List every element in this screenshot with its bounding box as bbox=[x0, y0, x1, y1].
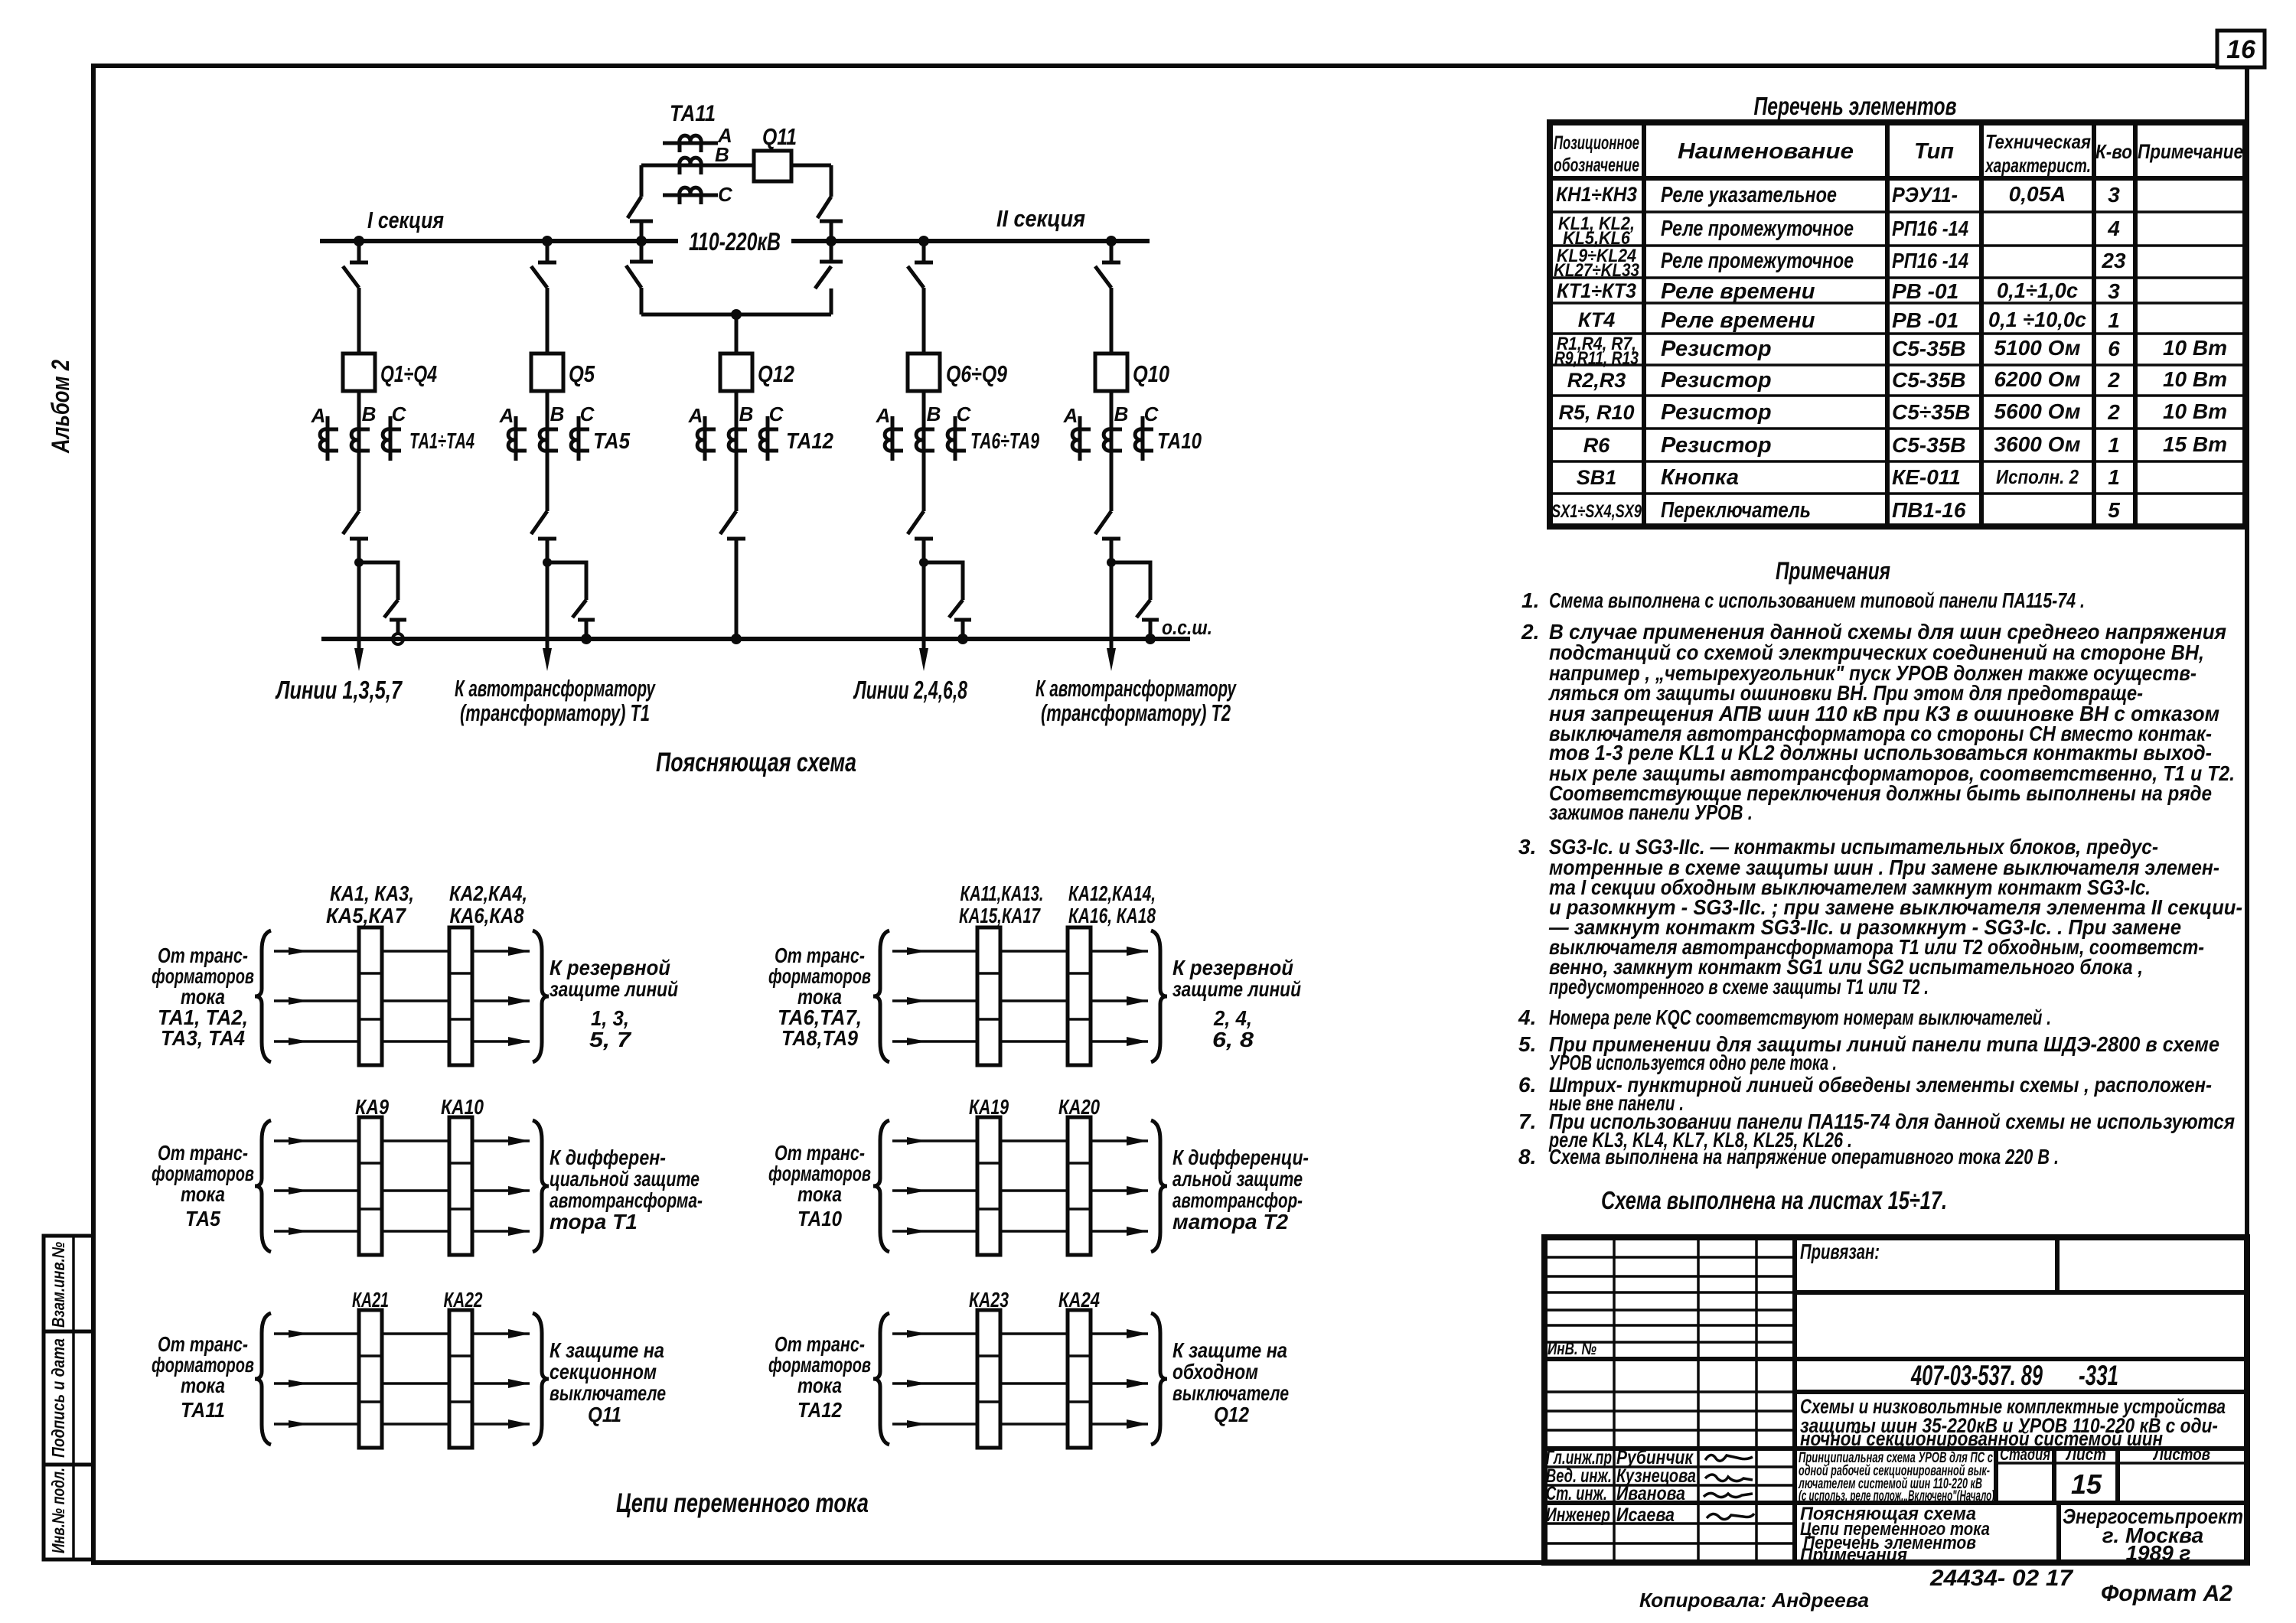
svg-text:ТА10: ТА10 bbox=[797, 1207, 842, 1230]
svg-text:ТА6÷ТА9: ТА6÷ТА9 bbox=[970, 429, 1039, 454]
svg-text:Наименование: Наименование bbox=[1678, 139, 1854, 164]
svg-text:ТА3, ТА4: ТА3, ТА4 bbox=[161, 1026, 245, 1050]
wire: loop top run bbox=[641, 164, 831, 168]
svg-text:4.: 4. bbox=[1518, 1005, 1536, 1029]
svg-text:6, 8: 6, 8 bbox=[1212, 1028, 1254, 1051]
signatures bbox=[1704, 1455, 1754, 1519]
svg-text:К защите на: К защите на bbox=[1172, 1338, 1287, 1362]
svg-text:R2,R3: R2,R3 bbox=[1567, 369, 1626, 392]
svg-text:К дифференци-: К дифференци- bbox=[1172, 1146, 1309, 1169]
bottom description bbox=[1800, 1504, 1990, 1566]
svg-text:15: 15 bbox=[2071, 1468, 2102, 1500]
svg-text:тора Т1: тора Т1 bbox=[550, 1210, 638, 1234]
busbar section I bbox=[320, 207, 678, 241]
svg-text:10 Вт: 10 Вт bbox=[2163, 399, 2227, 423]
CT TA11 label bbox=[670, 101, 716, 126]
svg-text:1989 г: 1989 г bbox=[2125, 1541, 2190, 1565]
svg-text:КН1÷КН3: КН1÷КН3 bbox=[1556, 183, 1637, 206]
svg-text:ТА1÷ТА4: ТА1÷ТА4 bbox=[409, 429, 475, 454]
svg-text:КА2,КА4,: КА2,КА4, bbox=[449, 882, 527, 905]
svg-text:Резистор: Резистор bbox=[1661, 400, 1772, 425]
svg-text:КА16, КА18: КА16, КА18 bbox=[1068, 904, 1156, 927]
section breaker bay Q12 bbox=[688, 314, 833, 644]
svg-text:Переключатель: Переключатель bbox=[1661, 498, 1811, 523]
svg-text:Схема выполнена на листах 1: Схема выполнена на листах 15÷17. bbox=[1601, 1186, 1947, 1214]
CT TA11 phase C winding bbox=[663, 183, 733, 206]
svg-text:выключателе: выключателе bbox=[550, 1381, 666, 1405]
svg-text:ТА5: ТА5 bbox=[185, 1207, 220, 1230]
title block texts bbox=[1548, 1240, 2226, 1450]
note 3 bbox=[1518, 835, 2242, 999]
svg-text:Q12: Q12 bbox=[758, 360, 794, 387]
svg-text:матора Т2: матора Т2 bbox=[1172, 1210, 1288, 1234]
svg-text:Лист: Лист bbox=[2065, 1445, 2106, 1464]
svg-text:4: 4 bbox=[2107, 217, 2120, 240]
node: bus junction dots bbox=[354, 236, 1117, 246]
svg-text:8.: 8. bbox=[1518, 1145, 1536, 1168]
svg-text:R6: R6 bbox=[1583, 434, 1610, 457]
feeder bay Q10 bbox=[1063, 241, 1202, 671]
svg-text:Копировала: Андреева: Копировала: Андреева bbox=[1639, 1589, 1869, 1612]
svg-text:(с использ. реле полож.„Включе: (с использ. реле полож.„Включено"(Начало… bbox=[1799, 1488, 1994, 1504]
KA group 3 left label bbox=[152, 1332, 254, 1422]
svg-text:Q5: Q5 bbox=[569, 360, 595, 387]
svg-text:A: A bbox=[499, 404, 514, 427]
svg-text:КА20: КА20 bbox=[1058, 1095, 1100, 1119]
feeder bay Q5 bbox=[499, 241, 631, 671]
KA group 5 left label bbox=[768, 1141, 871, 1230]
note 2 bbox=[1521, 620, 2235, 824]
KA group 4 left label bbox=[768, 943, 871, 1050]
svg-text:КА12,КА14,: КА12,КА14, bbox=[1068, 882, 1156, 905]
svg-text:КА24: КА24 bbox=[1058, 1288, 1100, 1312]
svg-text:Q10: Q10 bbox=[1133, 360, 1169, 387]
svg-text:ТА8,ТА9: ТА8,ТА9 bbox=[781, 1026, 858, 1050]
svg-text:2: 2 bbox=[2107, 368, 2120, 392]
svg-text:Исполн. 2: Исполн. 2 bbox=[1996, 465, 2079, 488]
svg-text:КА9: КА9 bbox=[355, 1095, 389, 1119]
svg-text:(трансформатору) Т1: (трансформатору) Т1 bbox=[460, 699, 650, 726]
svg-text:ТА12: ТА12 bbox=[797, 1398, 842, 1422]
outgoing labels bbox=[275, 676, 403, 704]
bypass loop right disconnector (above bus) bbox=[817, 165, 843, 241]
parts table grid bbox=[1550, 122, 2245, 526]
svg-text:Исаева: Исаева bbox=[1616, 1504, 1675, 1526]
svg-text:Q11: Q11 bbox=[588, 1403, 621, 1426]
note 8 bbox=[1518, 1145, 2059, 1168]
svg-text:Примечания: Примечания bbox=[1800, 1545, 1907, 1566]
feeder bay Q1..Q4 bbox=[311, 241, 475, 671]
svg-text:7.: 7. bbox=[1518, 1110, 1536, 1133]
svg-text:6.: 6. bbox=[1518, 1073, 1536, 1097]
album label bbox=[47, 360, 74, 454]
svg-text:Реле указательное: Реле указательное bbox=[1661, 183, 1837, 207]
svg-text:Стадия: Стадия bbox=[2000, 1445, 2050, 1464]
bypass busbar о.с.ш. bbox=[321, 616, 1212, 639]
svg-text:КА19: КА19 bbox=[969, 1095, 1009, 1119]
svg-text:Q12: Q12 bbox=[1214, 1403, 1249, 1426]
svg-text:УРОВ используется одно реле: УРОВ используется одно реле тока . bbox=[1549, 1051, 1837, 1074]
svg-text:автотрансформа-: автотрансформа- bbox=[550, 1188, 703, 1212]
table title bbox=[1754, 92, 1957, 120]
svg-text:предусмотренного в схеме защ: предусмотренного в схеме защиты Т1 или Т… bbox=[1549, 975, 1929, 999]
svg-text:автотрансфор-: автотрансфор- bbox=[1172, 1188, 1303, 1212]
svg-text:C: C bbox=[718, 183, 733, 206]
svg-text:К автотрансформатору: К автотрансформатору bbox=[455, 675, 656, 702]
svg-text:3: 3 bbox=[2108, 279, 2120, 303]
svg-text:РП16 -14: РП16 -14 bbox=[1892, 217, 1968, 240]
svg-text:Кнопка: Кнопка bbox=[1661, 465, 1739, 490]
svg-text:ТА12: ТА12 bbox=[786, 429, 833, 454]
svg-text:Инв.№ подл.: Инв.№ подл. bbox=[48, 1468, 68, 1553]
svg-text:ПВ1-16: ПВ1-16 bbox=[1892, 498, 1966, 522]
svg-text:КА22: КА22 bbox=[444, 1288, 483, 1312]
svg-text:РВ -01: РВ -01 bbox=[1892, 308, 1958, 332]
feeder bay Q6..Q9 bbox=[876, 241, 1039, 671]
svg-text:R9,R11, R13: R9,R11, R13 bbox=[1554, 348, 1639, 369]
svg-text:15 Вт: 15 Вт bbox=[2163, 432, 2227, 456]
svg-text:КА10: КА10 bbox=[441, 1095, 484, 1119]
svg-text:3.: 3. bbox=[1518, 835, 1536, 859]
KA group 1 right label bbox=[550, 956, 678, 1051]
svg-text:РВ -01: РВ -01 bbox=[1892, 279, 1958, 303]
svg-text:К резервной: К резервной bbox=[1172, 956, 1293, 979]
svg-text:К защите на: К защите на bbox=[550, 1338, 664, 1362]
svg-text:КТ1÷КТ3: КТ1÷КТ3 bbox=[1557, 279, 1636, 302]
svg-text:(трансформатору) Т2: (трансформатору) Т2 bbox=[1041, 699, 1231, 726]
svg-text:КА15,КА17: КА15,КА17 bbox=[959, 904, 1041, 927]
svg-text:ТА10: ТА10 bbox=[1157, 429, 1202, 454]
svg-text:С5-35В: С5-35В bbox=[1892, 368, 1965, 392]
svg-text:2: 2 bbox=[2107, 400, 2120, 424]
caption: Поясняющая схема bbox=[656, 748, 856, 777]
KA group 6 right label bbox=[1172, 1338, 1289, 1426]
svg-text:тока: тока bbox=[181, 1182, 225, 1206]
svg-text:Q11: Q11 bbox=[762, 123, 797, 150]
svg-text:ТА11: ТА11 bbox=[670, 101, 716, 126]
svg-text:II секция: II секция bbox=[996, 205, 1085, 232]
svg-text:выключателе: выключателе bbox=[1172, 1381, 1289, 1405]
KA group 5: relays KA19, KA20 bbox=[873, 1095, 1167, 1255]
svg-text:16: 16 bbox=[2226, 35, 2256, 64]
svg-text:обходном: обходном bbox=[1172, 1360, 1258, 1383]
svg-text:C: C bbox=[957, 402, 972, 425]
KA group 6: relays KA23, KA24 bbox=[873, 1288, 1167, 1448]
svg-text:Схема выполнена на напряжен: Схема выполнена на напряжение оперативно… bbox=[1549, 1145, 2059, 1168]
KA group 2 right label bbox=[550, 1146, 703, 1234]
svg-text:характерист.: характерист. bbox=[1985, 154, 2091, 177]
KA group 6 left label bbox=[768, 1332, 871, 1422]
svg-text:0,05А: 0,05А bbox=[2009, 182, 2066, 206]
svg-text:Подпись и дата: Подпись и дата bbox=[48, 1338, 68, 1458]
svg-text:Ст. инж.: Ст. инж. bbox=[1546, 1483, 1607, 1504]
row KL9..KL24 KL27..KL33 bbox=[1554, 246, 2126, 281]
svg-text:ТА5: ТА5 bbox=[593, 429, 631, 454]
note 5 bbox=[1518, 1032, 2219, 1074]
caption: Цепи переменного тока bbox=[616, 1488, 869, 1518]
svg-text:3600 Ом: 3600 Ом bbox=[1994, 432, 2081, 456]
svg-text:Резистор: Резистор bbox=[1661, 433, 1772, 458]
svg-text:КА5,КА7: КА5,КА7 bbox=[326, 904, 406, 927]
section disconnector left (below bus) bbox=[626, 241, 653, 314]
svg-text:2, 4,: 2, 4, bbox=[1213, 1006, 1252, 1030]
row R1,R4,R7,R9,R11,R13 bbox=[1554, 334, 2227, 369]
svg-text:110-220кВ: 110-220кВ bbox=[689, 227, 781, 256]
svg-text:KL27÷KL33: KL27÷KL33 bbox=[1554, 260, 1640, 281]
svg-text:10 Вт: 10 Вт bbox=[2163, 367, 2227, 391]
svg-text:6200 Ом: 6200 Ом bbox=[1994, 367, 2081, 391]
svg-text:К-во: К-во bbox=[2095, 140, 2132, 163]
svg-text:Позиционное: Позиционное bbox=[1554, 132, 1639, 154]
svg-text:Формат А2: Формат А2 bbox=[2101, 1581, 2232, 1606]
svg-text:Резистор: Резистор bbox=[1661, 337, 1772, 361]
bypass loop left disconnector (above bus) bbox=[628, 165, 653, 241]
stage columns bbox=[2000, 1445, 2210, 1500]
svg-text:С5-35В: С5-35В bbox=[1892, 337, 1965, 360]
row KT4 bbox=[1578, 308, 2120, 333]
svg-text:Реле промежуточное: Реле промежуточное bbox=[1661, 217, 1854, 241]
note 4 bbox=[1518, 1005, 2051, 1029]
svg-text:защите линий: защите линий bbox=[1172, 977, 1301, 1001]
wire: loop bottom run bbox=[641, 309, 831, 320]
KA group 4: relays KA11..KA18 bbox=[873, 882, 1167, 1065]
svg-text:К резервной: К резервной bbox=[550, 956, 670, 979]
svg-text:тока: тока bbox=[797, 1182, 842, 1206]
CT TA11 phase A winding bbox=[663, 124, 732, 152]
staff rows bbox=[1546, 1447, 1696, 1526]
footer marks bbox=[1929, 1566, 2073, 1591]
svg-text:SB1: SB1 bbox=[1577, 466, 1617, 489]
svg-text:тока: тока bbox=[181, 1374, 225, 1397]
svg-text:1: 1 bbox=[2108, 465, 2120, 489]
svg-text:B: B bbox=[550, 402, 565, 425]
svg-text:КЕ-011: КЕ-011 bbox=[1892, 465, 1961, 489]
svg-text:A: A bbox=[688, 404, 703, 427]
svg-text:5: 5 bbox=[2108, 498, 2120, 522]
svg-text:КТ4: КТ4 bbox=[1578, 308, 1615, 331]
KA group 5 right label bbox=[1172, 1146, 1309, 1234]
svg-text:Реле времени: Реле времени bbox=[1661, 279, 1815, 304]
svg-text:Реле промежуточное: Реле промежуточное bbox=[1661, 249, 1854, 273]
svg-text:0,1 ÷10,0с: 0,1 ÷10,0с bbox=[1988, 308, 2086, 331]
KA group 2: relays KA9, KA10 bbox=[255, 1095, 549, 1255]
svg-text:5600 Ом: 5600 Ом bbox=[1994, 399, 2081, 423]
svg-text:КА21: КА21 bbox=[352, 1288, 389, 1312]
svg-text:Тип: Тип bbox=[1914, 139, 1954, 164]
svg-text:Q6÷Q9: Q6÷Q9 bbox=[946, 360, 1008, 387]
svg-text:Листов: Листов bbox=[2152, 1445, 2210, 1464]
svg-text:Q1÷Q4: Q1÷Q4 bbox=[380, 360, 437, 387]
svg-text:0,1÷1,0с: 0,1÷1,0с bbox=[1997, 279, 2078, 302]
KA group 4 right label bbox=[1172, 956, 1301, 1051]
svg-text:3: 3 bbox=[2108, 183, 2120, 207]
svg-text:A: A bbox=[876, 404, 891, 427]
svg-text:5.: 5. bbox=[1518, 1032, 1536, 1056]
svg-text:зажимов панели УРОВ .: зажимов панели УРОВ . bbox=[1549, 800, 1753, 824]
svg-text:A: A bbox=[311, 404, 326, 427]
svg-text:SX1÷SX4,SX9: SX1÷SX4,SX9 bbox=[1551, 501, 1642, 522]
svg-text:5100 Ом: 5100 Ом bbox=[1994, 336, 2081, 360]
svg-text:Линии 1,3,5,7: Линии 1,3,5,7 bbox=[275, 676, 403, 704]
note 7 bbox=[1518, 1110, 2235, 1152]
organisation bbox=[2063, 1504, 2243, 1565]
svg-text:обозначение: обозначение bbox=[1554, 155, 1639, 176]
CT TA11 phase B winding bbox=[663, 143, 729, 174]
svg-text:Привязан:: Привязан: bbox=[1800, 1240, 1880, 1263]
svg-text:циальной защите: циальной защите bbox=[550, 1167, 700, 1191]
svg-text:Инженер: Инженер bbox=[1546, 1504, 1610, 1526]
svg-text:6: 6 bbox=[2108, 337, 2120, 360]
svg-text:Номера реле KQC соответствую: Номера реле KQC соответствуют номерам вы… bbox=[1549, 1005, 2051, 1029]
svg-text:С5÷35В: С5÷35В bbox=[1892, 400, 1971, 424]
svg-text:Смема выполнена с использова: Смема выполнена с использованием типовой… bbox=[1549, 588, 2085, 612]
svg-text:Цепи переменного тока: Цепи переменного тока bbox=[616, 1488, 869, 1518]
svg-text:23: 23 bbox=[2101, 249, 2126, 272]
svg-text:о.с.ш.: о.с.ш. bbox=[1162, 616, 1212, 639]
svg-text:B: B bbox=[715, 143, 729, 166]
svg-text:Примечание: Примечание bbox=[2138, 140, 2243, 163]
KA group 1: relays KA1..KA8 bbox=[255, 882, 549, 1065]
svg-text:2.: 2. bbox=[1521, 620, 1539, 644]
svg-text:Поясняющая схема: Поясняющая схема bbox=[656, 748, 856, 777]
svg-text:Примечания: Примечания bbox=[1776, 557, 1890, 585]
svg-text:1: 1 bbox=[2108, 433, 2120, 457]
row KH1..KH3 bbox=[1556, 182, 2120, 207]
row KT1..KT3 bbox=[1557, 279, 2120, 304]
svg-text:B: B bbox=[927, 402, 941, 425]
busbar section II bbox=[791, 205, 1150, 241]
row KL1,KL2,KL5,KL6 bbox=[1558, 213, 2120, 249]
project description small text bbox=[1798, 1450, 1994, 1504]
svg-text:I секция: I секция bbox=[367, 207, 444, 233]
svg-text:защите линий: защите линий bbox=[550, 977, 678, 1001]
svg-text:B: B bbox=[739, 402, 754, 425]
breaker Q11 bbox=[754, 123, 797, 181]
svg-text:B: B bbox=[362, 402, 377, 425]
svg-text:ТА11: ТА11 bbox=[181, 1398, 225, 1422]
svg-text:К дифферен-: К дифферен- bbox=[550, 1146, 666, 1169]
svg-text:C: C bbox=[580, 402, 595, 425]
svg-text:Резистор: Резистор bbox=[1661, 368, 1772, 393]
notes title bbox=[1776, 557, 1890, 585]
svg-text:Реле времени: Реле времени bbox=[1661, 308, 1815, 333]
KA group 3: relays KA21, KA22 bbox=[255, 1288, 549, 1448]
svg-text:С5-35В: С5-35В bbox=[1892, 433, 1965, 457]
svg-text:1: 1 bbox=[2108, 308, 2120, 332]
svg-text:Альбом 2: Альбом 2 bbox=[47, 360, 74, 454]
svg-text:R5, R10: R5, R10 bbox=[1558, 401, 1634, 424]
svg-text:C: C bbox=[1144, 402, 1159, 425]
svg-text:C: C bbox=[769, 402, 784, 425]
svg-text:A: A bbox=[1063, 404, 1078, 427]
svg-text:Перечень элементов: Перечень элементов bbox=[1754, 92, 1957, 120]
svg-text:секционном: секционном bbox=[550, 1360, 657, 1383]
svg-text:тока: тока bbox=[797, 1374, 842, 1397]
note 1 bbox=[1521, 588, 2085, 612]
table header texts bbox=[1554, 130, 2243, 177]
svg-text:-331: -331 bbox=[2079, 1360, 2118, 1391]
svg-text:КА1, КА3,: КА1, КА3, bbox=[330, 882, 414, 905]
svg-text:альной защите: альной защите bbox=[1172, 1167, 1303, 1191]
row R5,R10 bbox=[1558, 399, 2227, 425]
section disconnector right (below bus) bbox=[815, 241, 843, 314]
svg-text:РП16 -14: РП16 -14 bbox=[1892, 249, 1968, 272]
svg-text:РЭУ11-: РЭУ11- bbox=[1892, 183, 1958, 207]
svg-text:Линии 2,4,6,8: Линии 2,4,6,8 bbox=[853, 676, 968, 704]
svg-text:КА23: КА23 bbox=[969, 1288, 1009, 1312]
row R6 bbox=[1583, 432, 2227, 458]
svg-text:Иванова: Иванова bbox=[1616, 1483, 1685, 1504]
svg-text:1, 3,: 1, 3, bbox=[591, 1006, 629, 1030]
row SX1..SX4,SX9 bbox=[1551, 498, 2120, 523]
svg-text:1.: 1. bbox=[1521, 588, 1539, 612]
row SB1 bbox=[1577, 465, 2120, 490]
svg-text:407-03-537. 89: 407-03-537. 89 bbox=[1910, 1360, 2043, 1391]
svg-text:5, 7: 5, 7 bbox=[589, 1028, 632, 1051]
svg-text:10 Вт: 10 Вт bbox=[2163, 336, 2227, 360]
svg-text:C: C bbox=[392, 402, 407, 425]
svg-text:ночной секционированной сист: ночной секционированной системой шин bbox=[1800, 1427, 2163, 1450]
KA group 3 right label bbox=[550, 1338, 666, 1426]
svg-text:Техническая: Техническая bbox=[1985, 130, 2091, 153]
row R2,R3 bbox=[1567, 367, 2227, 393]
svg-text:ИнВ. №: ИнВ. № bbox=[1548, 1339, 1596, 1358]
svg-text:24434- 02 17: 24434- 02 17 bbox=[1929, 1566, 2073, 1591]
KA group 2 left label bbox=[152, 1141, 254, 1230]
sheets note bbox=[1601, 1186, 1947, 1214]
note 6 bbox=[1518, 1073, 2212, 1115]
svg-text:B: B bbox=[1114, 402, 1129, 425]
bus voltage label 110-220кВ bbox=[689, 227, 781, 256]
KA group 1 left label bbox=[152, 943, 254, 1050]
svg-text:КА6,КА8: КА6,КА8 bbox=[450, 904, 524, 927]
svg-text:КА11,КА13.: КА11,КА13. bbox=[960, 882, 1044, 905]
svg-text:К автотрансформатору: К автотрансформатору bbox=[1035, 675, 1237, 702]
sheet number box 16 bbox=[2217, 31, 2265, 67]
left stamp strip bbox=[44, 1236, 93, 1559]
svg-text:Взам.инв.№: Взам.инв.№ bbox=[48, 1242, 68, 1328]
